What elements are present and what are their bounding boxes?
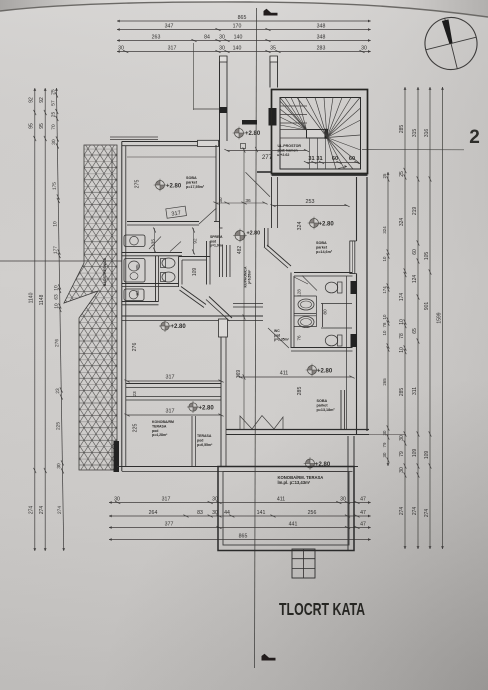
svg-text:311: 311 — [412, 387, 418, 395]
svg-text:25: 25 — [399, 171, 405, 177]
svg-text:377: 377 — [165, 522, 174, 528]
svg-text:parket: parket — [317, 404, 329, 408]
svg-text:317: 317 — [162, 497, 171, 503]
svg-text:128: 128 — [297, 289, 302, 297]
svg-text:276: 276 — [54, 339, 60, 347]
svg-text:+2.80: +2.80 — [317, 369, 333, 375]
svg-text:p=14,6m²: p=14,6m² — [316, 250, 333, 254]
svg-text:2: 2 — [469, 127, 480, 148]
svg-text:285: 285 — [399, 125, 405, 134]
svg-text:31: 31 — [316, 156, 322, 162]
svg-text:316: 316 — [424, 129, 430, 138]
svg-text:+2.80: +2.80 — [247, 231, 261, 237]
svg-text:10: 10 — [399, 347, 405, 353]
svg-text:47: 47 — [360, 497, 366, 503]
svg-text:83: 83 — [197, 510, 203, 516]
svg-text:324: 324 — [382, 226, 387, 234]
svg-text:901: 901 — [424, 302, 430, 311]
svg-text:80: 80 — [323, 309, 329, 315]
svg-text:865: 865 — [239, 534, 248, 540]
svg-text:253: 253 — [306, 199, 315, 205]
svg-text:+2.80: +2.80 — [171, 324, 187, 330]
svg-text:▸ +2.62: ▸ +2.62 — [277, 153, 290, 157]
svg-text:265: 265 — [382, 378, 387, 386]
svg-text:109: 109 — [412, 449, 418, 458]
svg-text:79: 79 — [382, 442, 387, 447]
svg-text:10: 10 — [54, 303, 60, 309]
svg-text:+2.80: +2.80 — [319, 222, 335, 228]
svg-text:30: 30 — [340, 497, 346, 503]
svg-text:263: 263 — [152, 35, 161, 41]
svg-text:135: 135 — [151, 239, 157, 247]
svg-text:30: 30 — [212, 510, 218, 516]
svg-text:30: 30 — [361, 46, 367, 52]
svg-text:47: 47 — [360, 510, 366, 516]
svg-text:124: 124 — [412, 275, 418, 284]
svg-text:177: 177 — [53, 246, 59, 254]
svg-text:+2.80: +2.80 — [199, 406, 215, 412]
svg-text:274: 274 — [399, 507, 405, 516]
svg-text:25: 25 — [382, 173, 387, 178]
svg-text:30: 30 — [51, 139, 57, 145]
svg-text:285: 285 — [297, 387, 303, 396]
svg-text:UL.PROSTOR: UL.PROSTOR — [278, 144, 302, 148]
svg-text:TERASA: TERASA — [152, 424, 167, 428]
svg-text:10: 10 — [382, 256, 387, 261]
svg-text:347: 347 — [165, 24, 174, 30]
svg-text:65: 65 — [412, 328, 418, 334]
svg-text:274: 274 — [424, 509, 430, 518]
svg-text:348: 348 — [317, 35, 326, 41]
svg-text:276: 276 — [132, 343, 138, 352]
svg-text:p=6,55m²: p=6,55m² — [248, 269, 252, 284]
svg-text:78: 78 — [399, 333, 405, 339]
svg-text:60: 60 — [332, 156, 338, 162]
svg-text:30: 30 — [114, 497, 120, 503]
svg-text:264: 264 — [149, 510, 158, 516]
svg-text:1599: 1599 — [437, 312, 443, 323]
svg-text:30: 30 — [212, 497, 218, 503]
svg-text:277: 277 — [262, 154, 273, 161]
svg-text:pod: pod — [197, 438, 203, 442]
svg-text:140: 140 — [233, 46, 242, 52]
svg-text:30: 30 — [218, 197, 223, 203]
svg-text:348: 348 — [317, 24, 326, 30]
svg-text:174: 174 — [382, 286, 387, 294]
svg-text:95: 95 — [29, 123, 35, 129]
svg-text:225: 225 — [56, 422, 62, 430]
svg-text:SOBA: SOBA — [317, 399, 328, 403]
svg-text:pod: kamen: pod: kamen — [278, 149, 298, 153]
svg-text:274: 274 — [57, 506, 63, 514]
svg-text:p=4,28m²: p=4,28m² — [152, 433, 168, 437]
svg-text:411: 411 — [280, 371, 289, 377]
svg-text:92: 92 — [193, 238, 198, 244]
svg-text:78: 78 — [382, 322, 387, 327]
svg-text:31: 31 — [308, 156, 314, 162]
svg-text:324: 324 — [297, 222, 303, 231]
svg-text:174: 174 — [399, 293, 405, 302]
svg-text:47: 47 — [360, 522, 366, 528]
svg-text:140: 140 — [234, 35, 243, 41]
svg-text:p=6,55m²: p=6,55m² — [197, 443, 213, 447]
svg-text:1148: 1148 — [39, 294, 45, 305]
svg-text:865: 865 — [238, 15, 247, 21]
svg-text:285: 285 — [399, 388, 405, 397]
svg-text:25: 25 — [51, 111, 57, 117]
svg-text:70: 70 — [51, 124, 57, 130]
svg-text:317: 317 — [168, 46, 177, 52]
svg-text:109: 109 — [192, 268, 198, 277]
svg-text:44: 44 — [224, 510, 230, 516]
svg-text:109: 109 — [424, 451, 430, 460]
svg-text:315: 315 — [412, 129, 418, 138]
svg-text:35: 35 — [270, 46, 276, 52]
svg-text:92: 92 — [29, 97, 35, 103]
svg-text:283: 283 — [317, 46, 326, 52]
svg-text:30: 30 — [382, 452, 387, 457]
svg-text:30: 30 — [56, 463, 62, 469]
svg-text:411: 411 — [277, 497, 285, 503]
svg-text:30: 30 — [399, 435, 405, 441]
svg-text:274: 274 — [29, 506, 35, 515]
svg-text:25: 25 — [50, 89, 56, 95]
svg-text:+2.80: +2.80 — [245, 131, 261, 137]
svg-text:+2.80: +2.80 — [166, 184, 182, 190]
svg-text:60: 60 — [349, 156, 355, 162]
svg-text:pod: pod — [152, 429, 158, 433]
svg-text:57: 57 — [50, 100, 56, 106]
svg-text:30: 30 — [219, 46, 225, 52]
svg-text:lm.pl. p=13,43m²: lm.pl. p=13,43m² — [278, 480, 311, 485]
svg-text:p=17,55m²: p=17,55m² — [186, 185, 205, 189]
svg-text:225: 225 — [133, 424, 139, 433]
svg-text:parket: parket — [316, 246, 328, 250]
svg-text:parket: parket — [186, 181, 198, 185]
svg-text:SOBA: SOBA — [186, 176, 197, 180]
svg-text:84: 84 — [204, 35, 210, 41]
svg-text:317: 317 — [166, 409, 175, 415]
svg-text:85: 85 — [135, 264, 141, 270]
svg-text:10: 10 — [399, 319, 405, 325]
svg-text:141: 141 — [257, 510, 266, 516]
svg-text:30: 30 — [118, 46, 124, 52]
svg-text:79: 79 — [399, 451, 405, 457]
svg-text:274: 274 — [39, 506, 45, 515]
svg-text:30: 30 — [219, 35, 225, 41]
svg-text:63: 63 — [54, 294, 60, 300]
svg-text:TERASA: TERASA — [197, 434, 212, 438]
svg-text:10: 10 — [52, 221, 58, 227]
svg-text:10: 10 — [53, 285, 59, 291]
svg-text:60: 60 — [412, 249, 418, 255]
svg-text:175: 175 — [52, 182, 58, 190]
svg-text:1140: 1140 — [29, 292, 35, 303]
svg-text:23: 23 — [55, 388, 61, 394]
svg-text:275: 275 — [135, 180, 141, 189]
svg-text:76: 76 — [297, 335, 302, 341]
svg-text:274: 274 — [412, 507, 418, 516]
svg-text:256: 256 — [308, 510, 317, 516]
svg-text:30: 30 — [399, 467, 405, 473]
svg-text:10: 10 — [382, 314, 387, 319]
svg-text:SOBA: SOBA — [316, 241, 327, 245]
svg-text:482: 482 — [237, 246, 243, 255]
svg-text:23: 23 — [132, 391, 138, 397]
svg-text:95: 95 — [39, 123, 45, 129]
svg-text:TLOCRT KATA: TLOCRT KATA — [279, 599, 365, 619]
svg-text:p=13,18m²: p=13,18m² — [317, 408, 336, 412]
svg-text:105: 105 — [424, 252, 430, 261]
svg-text:p=1,9m²: p=1,9m² — [210, 244, 224, 248]
svg-text:441: 441 — [289, 522, 298, 528]
svg-text:317: 317 — [166, 375, 175, 381]
svg-text:10: 10 — [382, 330, 387, 335]
svg-text:219: 219 — [412, 207, 418, 216]
svg-text:324: 324 — [399, 218, 405, 227]
svg-text:NADSTREŠNICA: NADSTREŠNICA — [102, 257, 107, 286]
svg-text:170: 170 — [233, 24, 242, 30]
svg-text:92: 92 — [39, 97, 45, 103]
svg-text:KONOBA/RM: KONOBA/RM — [152, 420, 174, 424]
